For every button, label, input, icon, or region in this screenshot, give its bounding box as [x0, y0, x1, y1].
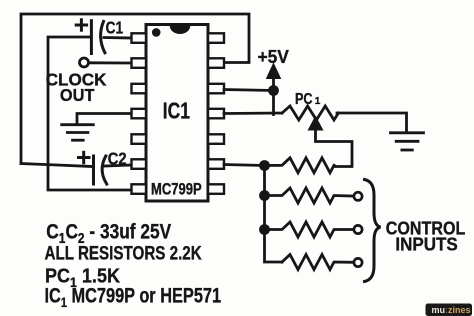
pin 1: [132, 33, 147, 43]
clock out terminal circle: [80, 58, 89, 67]
IC pin1 dot: [152, 28, 161, 37]
wire wiper loop to R1: [316, 129, 353, 167]
terminal circle R2: [354, 192, 362, 200]
svg-text:IC1 MC799P or HEP571: IC1 MC799P or HEP571: [45, 283, 222, 310]
svg-text:+5V: +5V: [258, 47, 289, 68]
brace control inputs: [365, 180, 381, 282]
ground left: [62, 125, 94, 141]
svg-text:PC: PC: [295, 90, 313, 108]
pin 5: [132, 134, 147, 144]
terminal circle R4: [354, 258, 362, 266]
potentiometer PC1 zigzag: [282, 106, 338, 120]
svg-text:MC799P: MC799P: [151, 181, 202, 199]
terminal circle R3: [354, 225, 362, 233]
capacitor C2 flat plate: [92, 156, 95, 184]
svg-text:INPUTS: INPUTS: [395, 234, 458, 255]
node junction dot at +5V: [268, 85, 279, 96]
pin 13: [208, 58, 224, 68]
wire clock out to pin 2: [90, 61, 132, 64]
node bus junction 2: [259, 190, 270, 201]
pin 7: [132, 184, 147, 194]
resistor R3: [265, 222, 353, 237]
capacitor C1 curved plate: [101, 21, 105, 52]
wire pin 11 to PC1: [224, 112, 282, 115]
muzines logo badge: [426, 304, 473, 316]
PC1 wiper arrow: [308, 117, 322, 131]
pin 8: [208, 184, 224, 194]
wire +5V vertical: [272, 78, 275, 115]
pin 2: [132, 58, 147, 68]
svg-text:IC1: IC1: [163, 99, 190, 124]
wire bus vertical: [265, 166, 283, 263]
pin 9: [208, 159, 224, 169]
wire PC1 to right ground: [337, 113, 407, 133]
wire pin 4 to ground: [77, 114, 132, 125]
IC notch: [170, 26, 190, 34]
pin 6: [132, 159, 147, 169]
IC U1 body: [146, 25, 208, 202]
node bus junction 3: [259, 224, 270, 235]
capacitor C1 plus sign: [76, 20, 86, 30]
wire C2 to pin 6: [105, 165, 132, 166]
node bus junction 1: [259, 160, 270, 171]
+5V arrow: [267, 64, 281, 79]
svg-text:C2: C2: [108, 150, 127, 169]
svg-text:1: 1: [315, 96, 321, 107]
svg-text:C1: C1: [106, 19, 124, 38]
svg-text:ALL RESISTORS 2.2K: ALL RESISTORS 2.2K: [45, 241, 203, 263]
capacitor C2 plus sign: [79, 152, 90, 162]
wire top loop pin13 to C2 plate: [21, 14, 249, 164]
wire C1 to pin 1: [104, 36, 132, 39]
capacitor C1 flat plate: [90, 21, 93, 54]
pin 12: [208, 84, 224, 94]
wire pin 9 to bus: [224, 165, 265, 166]
pin 11: [208, 109, 224, 119]
pin 14: [208, 33, 224, 43]
pin 10: [208, 134, 224, 144]
resistor R1: [265, 158, 335, 173]
resistor R2: [265, 188, 353, 203]
wire C2 row left segment: [21, 164, 92, 167]
wire inner loop C1 to pin 7: [48, 37, 132, 190]
resistor R4: [282, 255, 352, 270]
wire pin 12 to node: [224, 90, 274, 91]
svg-text:mu:zines: mu:zines: [432, 305, 471, 315]
pin 4: [132, 109, 147, 119]
pin 3: [132, 84, 147, 94]
svg-text:OUT: OUT: [60, 84, 95, 105]
ground right: [391, 133, 424, 150]
capacitor C2 curved plate: [102, 156, 107, 184]
